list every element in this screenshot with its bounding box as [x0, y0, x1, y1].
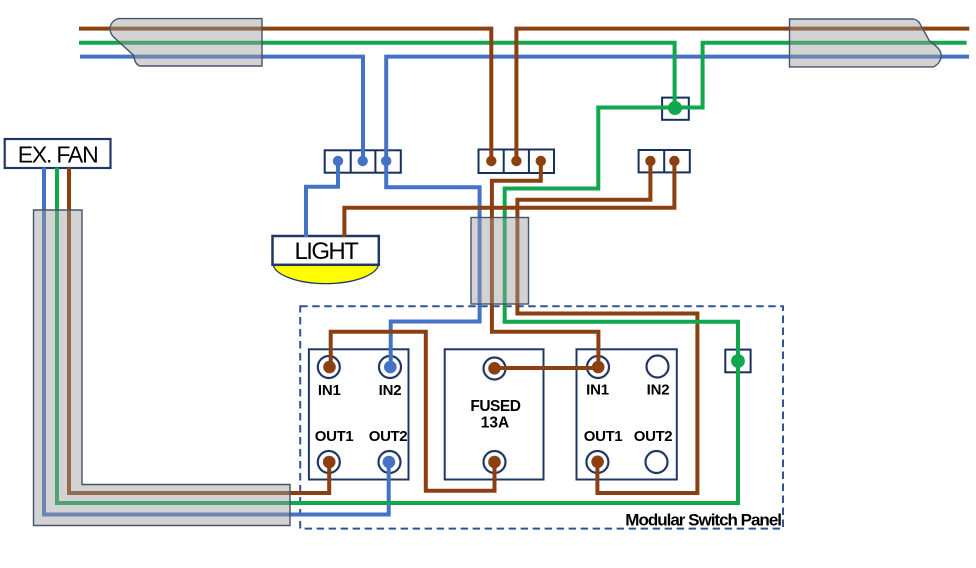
wire brown LIGHT to JB3: [344, 161, 674, 237]
wire brown FUSED top to SW2 IN1: [495, 366, 599, 370]
svg-text:LIGHT: LIGHT: [295, 238, 360, 265]
SW1 terminal ring IN2: [379, 356, 401, 378]
junction box JB1 (blue, 3-way): [325, 150, 401, 172]
node U1 bottom terminal: [488, 456, 501, 469]
wire blue neutral bus left segment: [80, 57, 363, 161]
svg-text:OUT1: OUT1: [315, 428, 353, 445]
junction box JB2 (brown, 3-way): [479, 150, 555, 174]
wire blue neutral bus right segment: [386, 57, 969, 161]
wire brown JB3 to SW2 OUT1: [517, 161, 697, 493]
node JB5 green junction: [731, 354, 745, 368]
svg-text:IN2: IN2: [379, 382, 402, 399]
wire blue SW1 OUT2 to EX.FAN: [44, 168, 389, 515]
SW2 terminal ring IN2: [647, 356, 669, 378]
node SW1 OUT1 terminal: [323, 456, 336, 469]
switch module SW1 body: [309, 349, 409, 479]
node JB3 terminal 1: [645, 156, 655, 166]
junction box JB5 (green tap, panel): [725, 350, 750, 373]
node JB1 terminal 1: [333, 156, 343, 166]
wire green earth bus right segment: [675, 43, 967, 108]
U1 terminal ring bottom: [484, 451, 506, 473]
wire brown SW1 IN1 to FUSED bottom: [331, 332, 495, 491]
SW2 terminal ring OUT1: [586, 451, 608, 473]
node SW2 IN1 terminal: [592, 361, 605, 374]
svg-text:OUT2: OUT2: [369, 428, 407, 445]
conduit sheath top left: [110, 19, 262, 66]
node U1 top terminal: [488, 362, 501, 375]
wire green earth bus left segment: [79, 43, 675, 108]
svg-text:OUT2: OUT2: [634, 428, 672, 445]
node JB3 terminal 2: [669, 156, 679, 166]
node JB2 terminal 3: [536, 156, 546, 166]
lamp glow (yellow): [273, 264, 379, 283]
wire brown SW1 OUT1 to EX.FAN: [69, 168, 329, 494]
junction box JB3 (brown, 2-way): [639, 150, 690, 172]
wire green JB4 down to conduit: [505, 108, 675, 322]
SW1 terminal ring OUT1: [318, 451, 340, 473]
node SW2 OUT1 terminal: [591, 456, 604, 469]
node JB1 terminal 2: [358, 156, 368, 166]
junction box JB4 (green tap, top): [662, 98, 689, 120]
exhaust fan box EX. FAN: [5, 139, 111, 168]
conduit L-shape to EX.FAN: [34, 210, 291, 526]
SW2 terminal ring OUT2: [646, 451, 668, 473]
node SW1 IN1 terminal: [323, 361, 336, 374]
light box LIGHT: [273, 236, 379, 265]
svg-text:FUSED: FUSED: [470, 398, 520, 415]
switch module SW2 body: [577, 349, 677, 479]
conduit sheath top right: [790, 19, 942, 67]
wire brown live bus left segment: [79, 29, 491, 161]
svg-text:OUT1: OUT1: [584, 428, 622, 445]
node JB2 terminal 1: [486, 156, 496, 166]
panel dashed border Modular Switch Panel: [300, 306, 783, 528]
SW2 terminal ring IN1: [587, 356, 609, 378]
svg-text:IN1: IN1: [586, 382, 609, 399]
svg-text:13A: 13A: [481, 415, 509, 432]
svg-text:EX. FAN: EX. FAN: [18, 142, 98, 168]
wire brown JB2 to SW2 IN1: [492, 161, 599, 367]
node JB1 terminal 3: [381, 156, 391, 166]
wire green JB5 loop to EX.FAN: [57, 168, 738, 504]
node SW1 OUT2 terminal: [383, 456, 396, 469]
node JB4 green junction: [668, 101, 682, 115]
node JB2 terminal 2: [511, 156, 521, 166]
svg-text:IN1: IN1: [318, 382, 341, 399]
U1 terminal ring top: [484, 358, 506, 380]
node SW1 IN2 terminal: [384, 361, 397, 374]
SW1 terminal ring OUT2: [379, 451, 401, 473]
conduit drop to panel (middle): [471, 218, 529, 305]
svg-text:Modular Switch Panel: Modular Switch Panel: [625, 511, 781, 530]
wire blue JB1 to SW1 IN2: [386, 161, 479, 367]
svg-text:IN2: IN2: [647, 382, 670, 399]
wire blue JB1 to LIGHT: [306, 161, 338, 237]
fuse module U1 body FUSED 13A: [445, 349, 544, 479]
SW1 terminal ring IN1: [318, 356, 340, 378]
wire brown live bus right segment: [516, 29, 969, 161]
